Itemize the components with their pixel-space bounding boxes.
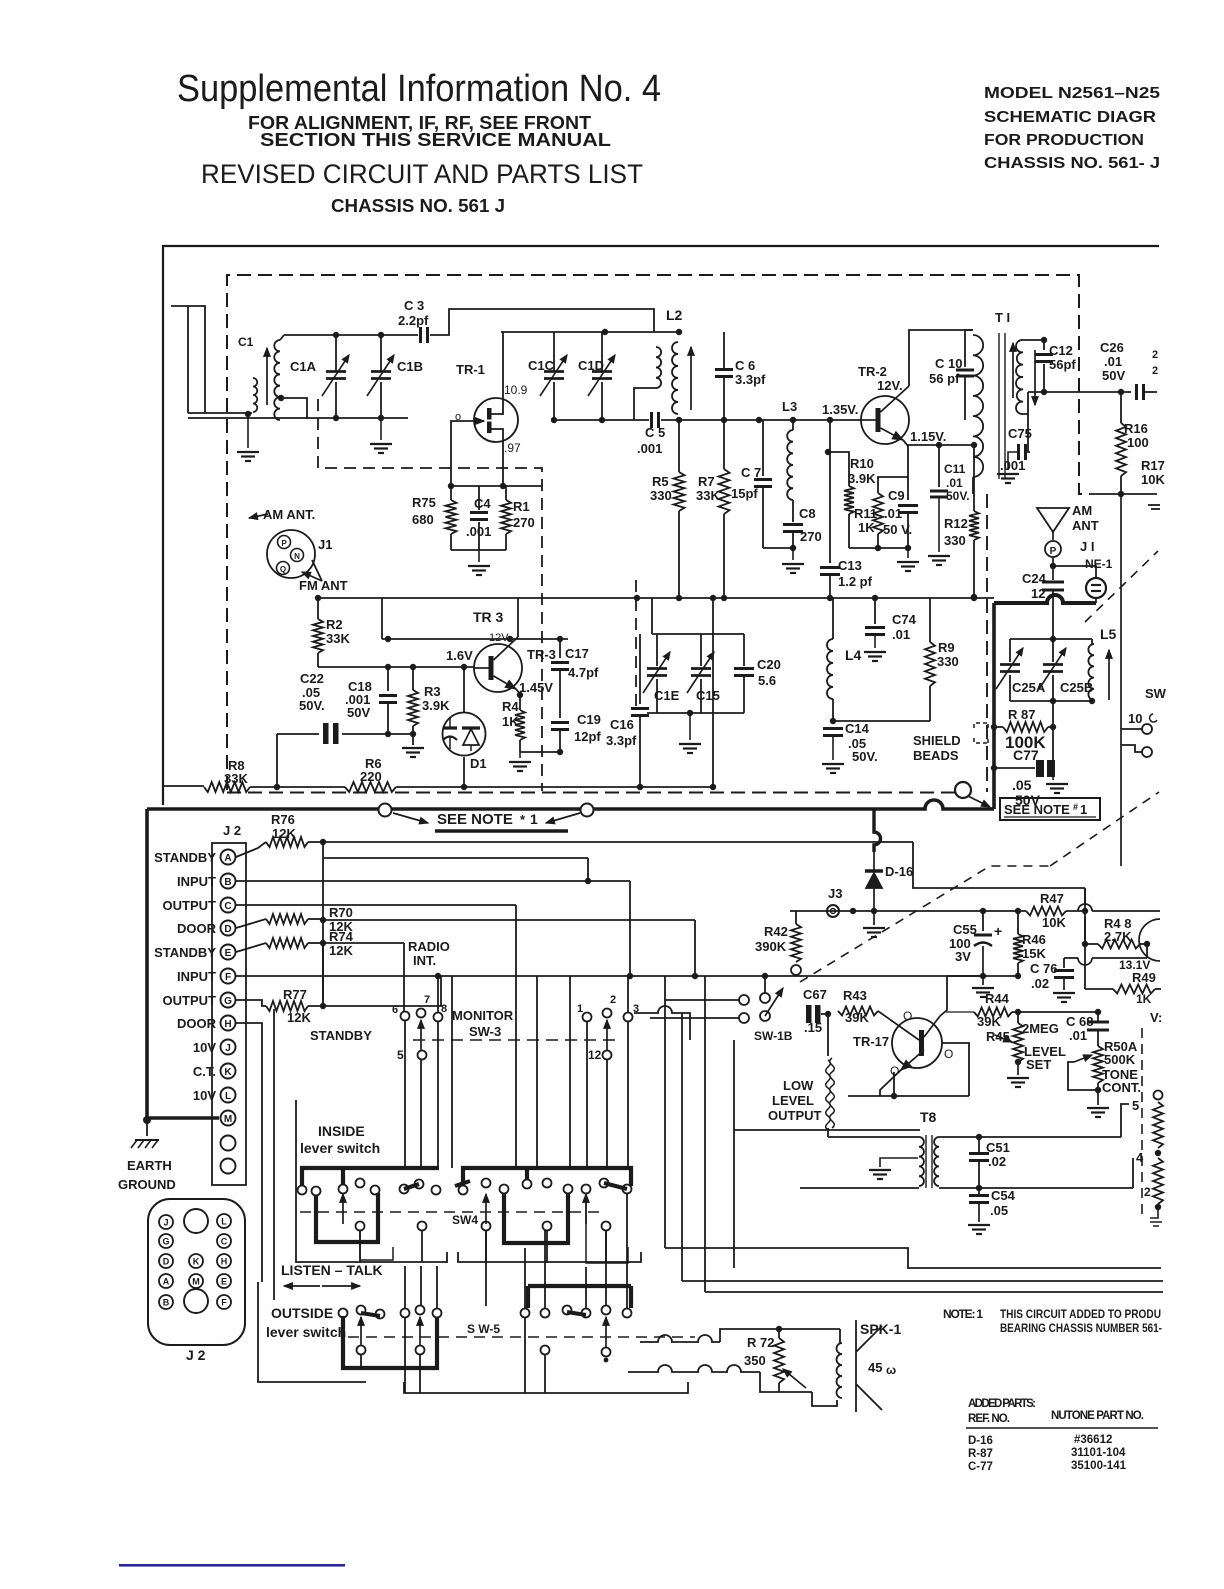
svg-text:33K: 33K — [326, 631, 350, 646]
terminal J2 F — [221, 969, 236, 984]
svg-text:DOOR: DOOR — [177, 1016, 217, 1031]
thick wire down x994 — [992, 603, 996, 809]
ground T8 tap — [880, 1158, 918, 1167]
terminal see note right — [581, 804, 594, 817]
capacitor C26 — [1135, 384, 1138, 400]
svg-text:TR-2: TR-2 — [858, 364, 887, 379]
svg-text:15K: 15K — [1022, 946, 1046, 961]
svg-text:O: O — [944, 1047, 953, 1061]
svg-text:3.9K: 3.9K — [422, 698, 450, 713]
svg-text:A: A — [163, 1277, 170, 1287]
wire top rail of tank — [284, 334, 418, 336]
svg-text:M: M — [224, 1114, 232, 1125]
svg-text:1K: 1K — [502, 714, 519, 729]
arrows SW4 levers — [342, 1194, 344, 1224]
svg-text:D: D — [224, 924, 231, 935]
svg-text:2MEG: 2MEG — [1022, 1021, 1059, 1036]
wire C24 down to C25 box — [1052, 603, 1054, 639]
svg-text:G: G — [162, 1237, 169, 1247]
svg-text:R 72: R 72 — [747, 1335, 774, 1350]
svg-text:.15: .15 — [804, 1020, 822, 1035]
svg-text:33K: 33K — [696, 488, 720, 503]
svg-text:C22: C22 — [300, 671, 324, 686]
svg-text:V:: V: — [1150, 1010, 1162, 1025]
svg-text:500K: 500K — [1104, 1052, 1136, 1067]
svg-text:2: 2 — [1152, 349, 1158, 361]
resistor right edge lower — [1153, 1158, 1163, 1204]
thick bus inside right bank — [463, 1168, 631, 1190]
svg-text:5.6: 5.6 — [758, 673, 776, 688]
svg-text:NUTONE PART NO.: NUTONE PART NO. — [1051, 1410, 1144, 1422]
lower contacts SW4 — [356, 1222, 365, 1231]
wire row 598 left vertical — [381, 598, 383, 639]
ground under C9 — [907, 548, 909, 558]
speaker symbol — [855, 1320, 857, 1412]
C25 box bottom — [1010, 700, 1092, 702]
svg-text:330: 330 — [944, 533, 966, 548]
thick bar outside right — [567, 1312, 586, 1315]
svg-text:R-87: R-87 — [968, 1448, 993, 1460]
svg-text:F: F — [225, 972, 231, 983]
wire row 721 — [833, 720, 930, 722]
svg-text:4: 4 — [1136, 1150, 1144, 1165]
svg-text:45: 45 — [868, 1360, 882, 1375]
resistor R87 — [994, 726, 1003, 728]
ground under C1B — [380, 418, 382, 440]
wire long row 598 — [318, 597, 994, 599]
wire emitter to R10 R11 tops — [878, 477, 908, 493]
svg-text:L4: L4 — [845, 647, 862, 663]
svg-text:TR 3: TR 3 — [473, 609, 504, 625]
svg-text:INPUT: INPUT — [177, 969, 216, 984]
svg-text:.01: .01 — [1104, 354, 1122, 369]
wire C67 down — [827, 1014, 829, 1056]
thick links SW4 right — [504, 1193, 568, 1243]
capacitor C10 — [964, 330, 966, 367]
ground emitter network — [478, 550, 480, 562]
capacitor C75 — [1028, 414, 1030, 452]
svg-text:C 10: C 10 — [935, 356, 962, 371]
svg-text:C4: C4 — [474, 496, 491, 511]
svg-text:K: K — [224, 1067, 232, 1078]
transformer C1 secondary coil — [274, 340, 280, 420]
svg-text:3.3pf: 3.3pf — [606, 733, 637, 748]
wire TR-1 drain — [491, 332, 503, 414]
capacitor C7 — [762, 420, 764, 476]
svg-text:2: 2 — [610, 994, 616, 1006]
svg-text:39K: 39K — [977, 1014, 1001, 1029]
wire D vertical — [694, 920, 696, 976]
wire row 634 — [652, 633, 744, 635]
svg-text:J: J — [163, 1218, 168, 1228]
resistor R47 — [1026, 907, 1066, 916]
svg-text:12pf: 12pf — [574, 729, 601, 744]
svg-text:.001: .001 — [1000, 458, 1025, 473]
svg-text:100: 100 — [1127, 435, 1149, 450]
svg-text:1: 1 — [1080, 802, 1087, 817]
svg-text:350: 350 — [744, 1353, 766, 1368]
capacitor C77 — [994, 767, 1035, 769]
wire contact 3 to right — [634, 1006, 690, 1040]
svg-text:C: C — [224, 901, 231, 912]
svg-text:AM ANT.: AM ANT. — [263, 507, 315, 522]
wire TR-2 collector to T1 — [909, 330, 973, 386]
ground under R3 — [402, 747, 424, 749]
resistor R2 — [317, 598, 319, 619]
svg-text:NOTE: 1: NOTE: 1 — [943, 1307, 983, 1321]
svg-text:R11: R11 — [854, 506, 877, 521]
svg-text:OUTSIDE: OUTSIDE — [271, 1305, 333, 1321]
terminal J2 M — [221, 1111, 236, 1126]
arrow T1 down — [1034, 350, 1036, 405]
connector J2 pin blank — [184, 1209, 208, 1233]
junction antenna ground — [245, 411, 251, 417]
dashed shield box around RF section — [227, 275, 1090, 790]
svg-text:C 6: C 6 — [735, 358, 755, 373]
contacts outside left bank — [339, 1309, 348, 1318]
svg-text:T I: T I — [995, 310, 1010, 325]
dashed line SW-5 — [348, 1336, 695, 1338]
svg-text:CHASSIS NO. 561 J: CHASSIS NO. 561 J — [331, 196, 505, 216]
svg-text:S W-5: S W-5 — [467, 1322, 500, 1336]
hanging boxes SW4 — [360, 1230, 393, 1260]
svg-text:C75: C75 — [1008, 426, 1032, 441]
wire TR-3 collector — [517, 598, 519, 637]
svg-text:J: J — [225, 1043, 231, 1054]
svg-text:680: 680 — [412, 512, 434, 527]
svg-text:50V.: 50V. — [852, 749, 878, 764]
wire T8 primary bottom left — [800, 1187, 919, 1189]
variable capacitor C1D — [601, 332, 603, 371]
svg-text:39K: 39K — [845, 1010, 869, 1025]
wire C1 tap to bottom rail — [281, 398, 307, 419]
svg-text:R49: R49 — [1132, 970, 1156, 985]
see note box — [1000, 798, 1100, 820]
wire A long to right — [323, 842, 1085, 888]
svg-text:R9: R9 — [938, 640, 955, 655]
svg-text:12K: 12K — [272, 826, 296, 841]
svg-text:10K: 10K — [1141, 472, 1165, 487]
svg-text:C15: C15 — [696, 688, 720, 703]
svg-text:1: 1 — [530, 811, 538, 827]
svg-text:#36612: #36612 — [1074, 1434, 1112, 1446]
svg-text:E: E — [225, 948, 232, 959]
resistor R74 on wire E — [236, 943, 266, 952]
svg-text:ANT: ANT — [1072, 518, 1099, 533]
svg-text:ω: ω — [886, 1363, 896, 1377]
svg-text:REVISED CIRCUIT AND PARTS LIST: REVISED CIRCUIT AND PARTS LIST — [201, 159, 643, 189]
wire TR-3 emitter to R4 — [516, 689, 520, 710]
svg-text:1K: 1K — [858, 520, 875, 535]
dashed diagonal lower — [800, 792, 1159, 982]
resistor R77 on wire G — [236, 1000, 266, 1006]
thick links SW4 left — [316, 1193, 378, 1242]
svg-text:R46: R46 — [1022, 932, 1046, 947]
wire TR-2 emitter — [903, 440, 908, 500]
ground mark right edge — [1148, 504, 1160, 506]
wire H — [236, 1023, 262, 1282]
svg-text:270: 270 — [800, 529, 822, 544]
dashed line SW-3 — [413, 1039, 620, 1041]
capacitor C5 — [650, 412, 653, 428]
wire C — [236, 904, 516, 906]
svg-text:MONITOR: MONITOR — [452, 1008, 514, 1023]
svg-text:C55: C55 — [953, 922, 977, 937]
capacitor C17 — [559, 639, 561, 658]
variable capacitor C15 — [700, 634, 702, 666]
variable capacitor C1E — [656, 634, 658, 666]
svg-text:D: D — [163, 1257, 170, 1267]
resistor R5 — [678, 420, 680, 472]
wire A branch — [323, 857, 588, 859]
arrow L5 — [1108, 650, 1110, 700]
svg-text:330: 330 — [650, 488, 672, 503]
svg-text:D-16: D-16 — [885, 864, 913, 879]
wire E vertical to SW-3 — [403, 943, 405, 1011]
svg-text:MODEL N2561–N25: MODEL N2561–N25 — [984, 85, 1160, 102]
diode D1 — [463, 667, 465, 713]
capacitor C11 — [938, 445, 940, 487]
svg-text:R70: R70 — [329, 905, 353, 920]
svg-text:L5: L5 — [1100, 626, 1117, 642]
wire TR-1 bias row — [451, 485, 542, 487]
svg-text:R3: R3 — [424, 684, 441, 699]
terminal J2 blank — [221, 1136, 236, 1151]
svg-text:C 3: C 3 — [404, 298, 424, 313]
variable capacitor C1B — [380, 335, 382, 371]
svg-text:C77: C77 — [1013, 747, 1039, 763]
enclosure inside switch — [296, 1100, 447, 1262]
terminal J2 A — [221, 850, 236, 865]
svg-text:C9: C9 — [888, 488, 905, 503]
connector J2 pin B — [159, 1295, 173, 1309]
resistor R9 — [929, 598, 931, 642]
svg-text:B: B — [163, 1298, 170, 1308]
svg-text:OUTPUT: OUTPUT — [163, 898, 217, 913]
svg-text:B: B — [224, 877, 231, 888]
wire T1 primary bottom — [972, 477, 974, 494]
inductor L2 primary — [656, 347, 661, 388]
wire TR-1 source down — [491, 429, 503, 486]
wire TR-1 base down — [451, 421, 452, 486]
wire drops below SW4 contacts — [359, 1231, 361, 1262]
wire vertical x713 — [712, 598, 714, 787]
svg-text:BEARING CHASSIS NUMBER 561-: BEARING CHASSIS NUMBER 561- — [1000, 1321, 1162, 1335]
svg-text:50 V.: 50 V. — [883, 522, 912, 537]
svg-text:J1: J1 — [318, 537, 332, 552]
svg-text:1.35V.: 1.35V. — [822, 402, 858, 417]
wire G branch vertical — [273, 1009, 275, 1300]
svg-text:+: + — [994, 923, 1002, 939]
thick bus inside left bank — [302, 1168, 439, 1190]
svg-text:1.45V: 1.45V — [519, 680, 553, 695]
svg-text:A: A — [224, 853, 231, 864]
svg-text:C24: C24 — [1022, 571, 1047, 586]
potentiometer R50A tone cont — [1093, 1046, 1103, 1083]
svg-text:TR-3: TR-3 — [527, 647, 556, 662]
speaker circle partial — [1139, 919, 1160, 961]
svg-text:R 87: R 87 — [1008, 707, 1035, 722]
svg-text:5: 5 — [397, 1048, 404, 1062]
svg-text:SW-3: SW-3 — [469, 1024, 501, 1039]
variable capacitor C1C — [553, 332, 555, 371]
wire bundle vertical 2 — [681, 1013, 683, 1281]
svg-text:SW-1B: SW-1B — [754, 1029, 793, 1043]
svg-text:35100-141: 35100-141 — [1071, 1460, 1127, 1472]
capacitor C74 — [874, 598, 876, 624]
svg-text:OUTPUT: OUTPUT — [768, 1108, 822, 1123]
svg-text:P: P — [1050, 546, 1057, 557]
capacitor C13 — [829, 420, 831, 452]
contacts inside right bank — [459, 1186, 468, 1195]
svg-text:STANDBY: STANDBY — [310, 1028, 372, 1043]
svg-text:lever switch: lever switch — [266, 1324, 346, 1340]
ground under D-16 — [863, 927, 885, 929]
svg-text:CONT.: CONT. — [1102, 1080, 1141, 1095]
svg-text:O: O — [903, 1009, 912, 1023]
svg-text:R77: R77 — [283, 987, 307, 1002]
capacitor C20 — [743, 634, 745, 666]
wire row 392 to C26 — [1028, 391, 1131, 393]
svg-text:.01: .01 — [892, 627, 910, 642]
capacitor C6 and resistor R7 — [723, 332, 725, 368]
svg-text:R42: R42 — [764, 924, 788, 939]
wire R50A wiper loop — [1068, 1062, 1098, 1090]
resistor R42 — [795, 911, 797, 924]
svg-text:o: o — [455, 411, 461, 423]
svg-text:SHIELD: SHIELD — [913, 733, 961, 748]
svg-text:1.15V.: 1.15V. — [910, 429, 946, 444]
svg-text:TR-1: TR-1 — [456, 362, 485, 377]
svg-text:C19: C19 — [577, 712, 601, 727]
svg-text:SEE NOTE: SEE NOTE — [437, 811, 513, 828]
connector J2 pin J — [159, 1215, 173, 1229]
wire emitter network bottom — [451, 549, 506, 551]
capacitor C16 — [639, 634, 641, 704]
svg-text:8: 8 — [441, 1003, 447, 1015]
connector J2 block — [148, 1199, 245, 1345]
transformer T1 primary — [973, 335, 983, 477]
connector J2 pin D — [159, 1254, 173, 1268]
wire R10 R11 C9 bottom row — [849, 547, 908, 549]
connector J2 pin L — [217, 1214, 231, 1228]
svg-text:R5: R5 — [652, 474, 669, 489]
svg-text:C12: C12 — [1049, 343, 1073, 358]
terminal J2 J — [221, 1040, 236, 1055]
inductor L2 secondary — [672, 342, 678, 414]
svg-text:P: P — [281, 539, 287, 548]
svg-text:C 7: C 7 — [741, 465, 761, 480]
wire tank2 bottom rail — [554, 419, 649, 421]
arrow C1 tuning — [266, 348, 268, 405]
svg-text:50V.: 50V. — [946, 489, 970, 503]
capacitor C9 — [898, 504, 918, 507]
svg-text:INPUT: INPUT — [177, 874, 216, 889]
svg-text:J I: J I — [1080, 539, 1094, 554]
ground antenna — [247, 414, 249, 448]
svg-text:56 pf: 56 pf — [929, 371, 960, 386]
rail above C1C C1D — [501, 331, 679, 333]
svg-text:D1: D1 — [470, 756, 487, 771]
dashed vertical right — [1141, 1028, 1143, 1220]
svg-text:R16: R16 — [1124, 421, 1148, 436]
wire C25 center down and ground — [1052, 701, 1054, 768]
wire to speaker upper — [640, 1329, 733, 1342]
svg-text:6: 6 — [392, 1004, 398, 1016]
wire row 639 — [382, 638, 568, 640]
capacitor C19 — [551, 721, 569, 724]
svg-text:1K: 1K — [1136, 992, 1152, 1006]
svg-text:C20: C20 — [757, 657, 781, 672]
resistor R46 — [1017, 911, 1019, 934]
contacts inside left bank — [298, 1186, 307, 1195]
resistor R12 — [973, 445, 975, 511]
wire emitter row 752 — [520, 751, 560, 753]
svg-text:C1B: C1B — [397, 359, 423, 374]
svg-text:STANDBY: STANDBY — [154, 850, 216, 865]
terminal J2 D — [221, 921, 236, 936]
wire M thick to earth — [147, 1116, 219, 1119]
svg-text:1.6V: 1.6V — [446, 648, 473, 663]
svg-text:M: M — [192, 1277, 200, 1287]
thick wire to D-16 — [874, 809, 881, 852]
switch SW-3 contacts right — [583, 1013, 592, 1022]
svg-text:THIS CIRCUIT ADDED TO PRODU: THIS CIRCUIT ADDED TO PRODU — [1000, 1307, 1161, 1321]
wire C7 C8 join and ground — [763, 547, 793, 549]
wire TR-17 collector — [940, 976, 947, 1016]
svg-text:12K: 12K — [287, 1010, 311, 1025]
connector J2 pin M — [189, 1274, 203, 1288]
svg-text:3.9K: 3.9K — [848, 471, 876, 486]
svg-text:SET: SET — [1026, 1057, 1051, 1072]
connector J2 pin A — [159, 1274, 173, 1288]
arrow T1 up — [1012, 343, 1014, 398]
wire TR-17 emitter to low level — [880, 1068, 903, 1096]
svg-text:C 5: C 5 — [645, 425, 665, 440]
svg-text:R76: R76 — [271, 812, 295, 827]
svg-text:.02: .02 — [1031, 976, 1049, 991]
svg-text:LISTEN – TALK: LISTEN – TALK — [281, 1262, 383, 1278]
capacitor C14 — [823, 727, 843, 730]
terminal J2 B — [221, 874, 236, 889]
resistor right edge upper — [1154, 1091, 1163, 1100]
switch SW-1B — [739, 995, 749, 1005]
connector J2 pin G — [159, 1234, 173, 1248]
capacitor C12 — [1023, 340, 1044, 350]
svg-text:C54: C54 — [991, 1188, 1016, 1203]
svg-text:C8: C8 — [799, 506, 816, 521]
svg-text:R12: R12 — [944, 516, 968, 531]
svg-text:RADIO: RADIO — [408, 939, 450, 954]
diode D-16 — [873, 852, 875, 871]
svg-text:3.3pf: 3.3pf — [735, 372, 766, 387]
svg-text:C11: C11 — [944, 462, 966, 476]
svg-text:C26: C26 — [1100, 340, 1124, 355]
contacts outside right bank — [521, 1309, 530, 1318]
svg-text:10K: 10K — [1042, 915, 1066, 930]
svg-text:H: H — [221, 1257, 228, 1267]
svg-text:C1A: C1A — [290, 359, 317, 374]
svg-text:Supplemental Information No. 4: Supplemental Information No. 4 — [177, 68, 661, 110]
capacitor C4 — [478, 486, 480, 510]
svg-text:C17: C17 — [565, 646, 589, 661]
svg-text:C-77: C-77 — [968, 1461, 993, 1473]
svg-text:L: L — [221, 1217, 227, 1227]
wire C1 secondary top to rail — [280, 335, 284, 340]
wire TR-3 base row — [318, 666, 474, 668]
wire bottom row 787 with R8 R6 — [163, 785, 204, 787]
svg-text:.01: .01 — [946, 476, 963, 490]
